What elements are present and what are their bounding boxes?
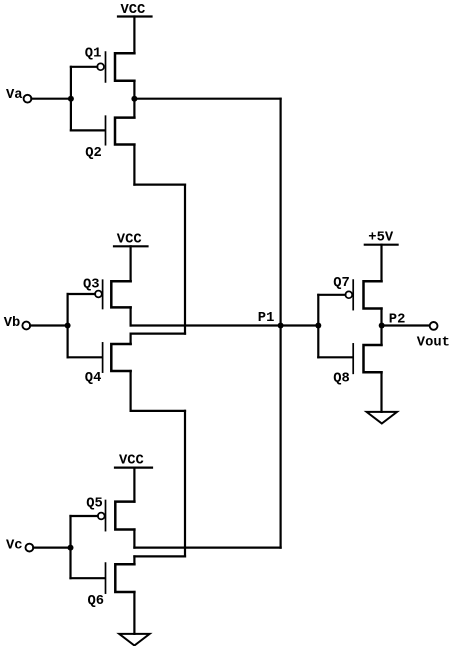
svg-text:VCC: VCC: [119, 453, 144, 468]
svg-text:Q2: Q2: [85, 146, 102, 161]
svg-text:VCC: VCC: [117, 232, 142, 247]
svg-text:Q3: Q3: [83, 278, 100, 293]
svg-text:Vb: Vb: [4, 315, 21, 331]
svg-text:Q8: Q8: [333, 372, 350, 387]
svg-text:Q5: Q5: [86, 496, 103, 511]
svg-text:P1: P1: [258, 311, 275, 326]
svg-text:Va: Va: [6, 88, 23, 103]
svg-text:Q6: Q6: [88, 594, 105, 609]
svg-text:Q4: Q4: [85, 371, 102, 386]
svg-text:Q7: Q7: [333, 276, 350, 291]
svg-text:+5V: +5V: [368, 230, 394, 245]
svg-text:Vout: Vout: [417, 336, 449, 351]
svg-text:Q1: Q1: [85, 47, 102, 62]
svg-text:Vc: Vc: [6, 538, 23, 553]
